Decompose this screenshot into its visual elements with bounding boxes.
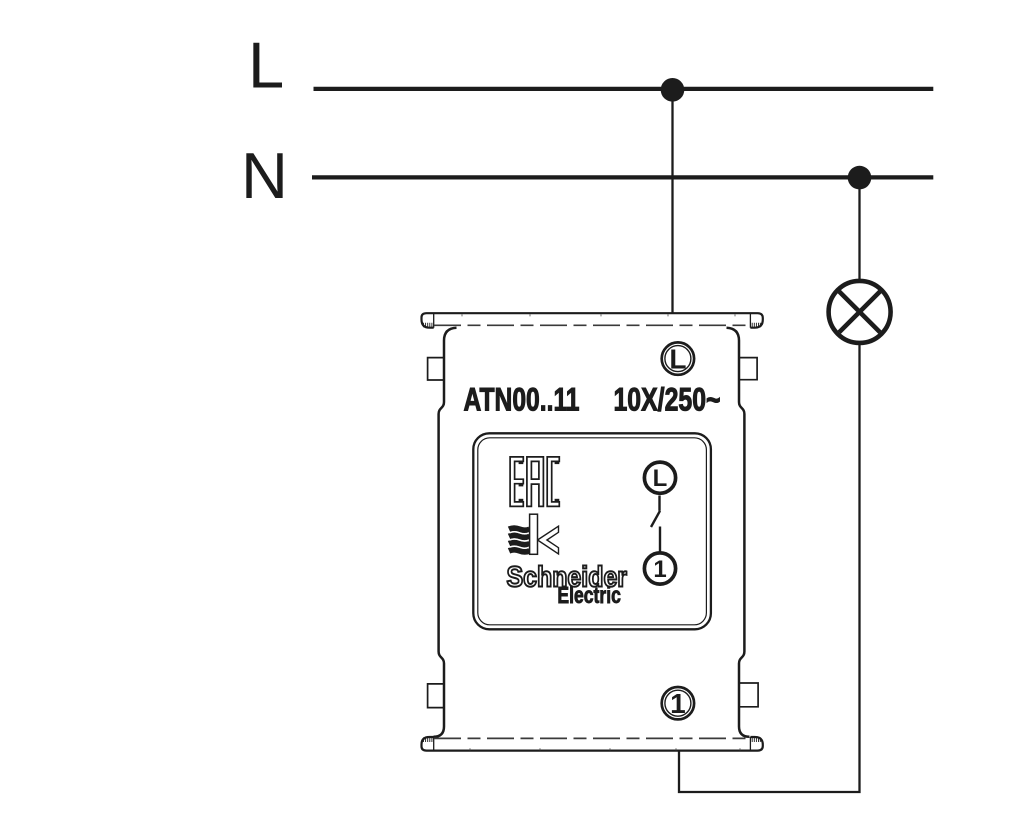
switch symbol: contact L circle: [644, 462, 675, 493]
dash-dot hidden edge (top): [434, 324, 750, 326]
junction dot on N: [848, 166, 872, 190]
wire L bus: [314, 87, 934, 91]
hatch ticks on bottom flange ends: [424, 737, 761, 742]
wire from L junction to switch: [671, 95, 673, 313]
svg-text:Electric: Electric: [557, 582, 621, 608]
svg-text:10X/250~: 10X/250~: [614, 381, 721, 417]
scan texture ticks on bottom edge: [470, 748, 740, 750]
dash-dot hidden edge (bottom): [434, 737, 750, 739]
terminal 1 (bottom, circled): [662, 687, 694, 719]
body right side: [727, 328, 750, 737]
wire from switch terminal 1 to lamp (bottom return): [679, 344, 860, 792]
top flange: [422, 313, 763, 328]
mounting tab top-right: [739, 358, 757, 380]
switch symbol: contact 1 line: [659, 527, 661, 552]
svg-text:L: L: [653, 465, 668, 492]
inner label plate (double rounded rect): [473, 433, 711, 629]
switch symbol: pole line: [658, 496, 660, 511]
svg-text:1: 1: [653, 556, 666, 583]
flammability cert logo (waves + bar + chevron): [509, 514, 559, 554]
hatch ticks on top flange ends: [424, 323, 761, 328]
svg-text:L: L: [248, 29, 284, 102]
mounting tab top-left: [428, 358, 444, 380]
terminal L (top, circled): [662, 342, 694, 374]
switch symbol: contact 1 circle: [644, 553, 675, 584]
svg-text:1: 1: [670, 688, 686, 719]
switch body outline: [428, 328, 758, 737]
junction dot on L: [661, 78, 685, 102]
wire N bus: [312, 175, 933, 179]
svg-text:N: N: [241, 139, 288, 212]
bottom flange: [422, 737, 763, 751]
scan texture ticks on top edge: [462, 314, 735, 316]
svg-text:L: L: [669, 344, 686, 375]
svg-text:ATN00..11: ATN00..11: [464, 381, 580, 417]
switch symbol: blade: [651, 511, 660, 527]
lamp E1: [829, 281, 891, 343]
wire from N junction to lamp: [858, 183, 860, 281]
body left side: [434, 328, 457, 737]
mounting tab bottom-left: [428, 684, 444, 708]
EAC logo: [510, 457, 559, 507]
mounting tab bottom-right: [739, 683, 758, 707]
